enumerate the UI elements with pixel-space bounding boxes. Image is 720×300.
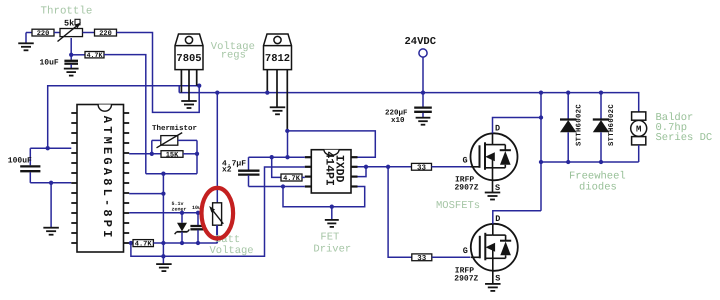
svg-text:4.7K: 4.7K	[283, 175, 301, 183]
svg-text:IXDD414PI: IXDD414PI	[323, 151, 346, 186]
svg-text:4.7K: 4.7K	[135, 241, 153, 249]
svg-text:G: G	[463, 156, 468, 166]
svg-text:STTH6002C: STTH6002C	[575, 104, 583, 146]
svg-text:D: D	[495, 124, 500, 134]
svg-text:S: S	[495, 183, 500, 193]
svg-text:G: G	[463, 246, 468, 256]
svg-text:5k: 5k	[64, 19, 74, 29]
svg-text:15K: 15K	[166, 152, 179, 160]
svg-text:diodes: diodes	[579, 181, 617, 193]
svg-text:7805: 7805	[176, 53, 201, 65]
svg-text:7812: 7812	[265, 53, 290, 65]
svg-text:Throttle: Throttle	[41, 5, 93, 17]
svg-text:ATMEGA8L-8PI: ATMEGA8L-8PI	[100, 116, 114, 241]
svg-text:regs: regs	[221, 49, 246, 61]
svg-text:D: D	[495, 214, 500, 224]
svg-text:S: S	[495, 273, 500, 283]
svg-text:24VDC: 24VDC	[405, 36, 437, 48]
svg-text:Series DC: Series DC	[656, 132, 713, 144]
svg-text:Voltage: Voltage	[210, 245, 254, 257]
svg-text:220: 220	[37, 30, 50, 38]
svg-text:Thermistor: Thermistor	[152, 124, 197, 133]
svg-text:zener: zener	[172, 206, 187, 212]
svg-text:220: 220	[99, 30, 112, 38]
svg-text:x2: x2	[222, 166, 232, 175]
svg-text:2907Z: 2907Z	[455, 183, 479, 192]
svg-text:FET: FET	[320, 232, 339, 244]
svg-text:Driver: Driver	[313, 243, 351, 255]
svg-text:100uF: 100uF	[8, 156, 32, 165]
svg-text:2907Z: 2907Z	[454, 274, 478, 283]
svg-text:MOSFETs: MOSFETs	[436, 200, 480, 212]
svg-text:33: 33	[417, 254, 427, 263]
svg-text:STTH6002C: STTH6002C	[608, 104, 616, 146]
svg-text:4.7K: 4.7K	[87, 52, 103, 59]
svg-text:10uF: 10uF	[40, 59, 59, 68]
svg-text:M: M	[636, 125, 641, 135]
svg-text:x10: x10	[391, 116, 405, 125]
svg-text:33: 33	[417, 164, 427, 173]
